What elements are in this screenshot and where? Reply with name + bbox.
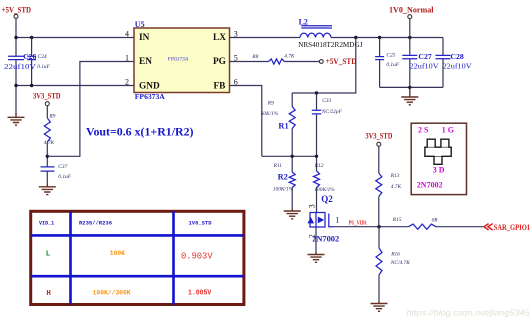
wire bottom bus [380, 86, 443, 88]
svg-text:EN: EN [139, 57, 152, 67]
junction [354, 36, 357, 39]
svg-text:Vout=0.6 x(1+R1/R2): Vout=0.6 x(1+R1/R2) [86, 125, 194, 138]
ground (below R16) [371, 302, 388, 312]
wire C33 branch [316, 93, 318, 156]
label R8 [251, 54, 295, 60]
svg-text:2 S: 2 S [418, 126, 429, 135]
capacitor C33 [312, 110, 321, 114]
label R1 refdes [261, 101, 279, 117]
wire 3V3 stem [46, 106, 48, 118]
svg-text:R16: R16 [390, 251, 400, 257]
pin number 2 [125, 78, 129, 87]
svg-text:0.1uF: 0.1uF [386, 62, 399, 68]
resistor R13 [376, 173, 382, 197]
label R2 [278, 173, 288, 182]
pin number 5 [234, 54, 238, 63]
ground (output caps) [401, 87, 418, 104]
pin number 6 [234, 78, 238, 87]
svg-text:SAR_GPIO1: SAR_GPIO1 [494, 223, 530, 232]
label R9 [44, 114, 56, 146]
wire R13 to gate node [378, 197, 380, 227]
svg-text:3V3_STD: 3V3_STD [33, 90, 61, 100]
svg-text:100K/1%: 100K/1% [273, 187, 294, 193]
capacitor C27 [402, 55, 417, 58]
wire R9 to node [46, 142, 48, 185]
wire R1 top stub [291, 93, 293, 156]
table cell 100K [110, 250, 125, 257]
wire EN route [47, 62, 134, 157]
pin number 1 (Q2 gate) [335, 216, 339, 225]
label FP6373A (below box) [135, 92, 165, 101]
ground (below Q2) [308, 253, 325, 263]
capacitor C28 [436, 55, 451, 58]
label C37 [58, 164, 71, 180]
pin number 4 [125, 30, 129, 39]
junction [30, 36, 33, 39]
junction [30, 84, 33, 87]
svg-text:NC/22pF: NC/22pF [321, 109, 343, 115]
wire 1V0 stem [409, 19, 411, 38]
package box 2N7002 [411, 123, 466, 194]
capacitor C28 branch wires [442, 38, 444, 88]
svg-text:H: H [46, 290, 50, 298]
wire +5V stem to ground [15, 19, 17, 115]
wire C24 branch [31, 38, 33, 86]
net label PU_VID1 [349, 221, 367, 227]
svg-text:R11: R11 [273, 163, 283, 169]
ground (below C37) [39, 185, 56, 195]
wire FB node rail [262, 155, 317, 157]
wire GND rail [16, 85, 134, 87]
wire Q2 source to ground [315, 227, 317, 253]
label C28 [443, 52, 473, 70]
svg-text:C27: C27 [418, 52, 432, 61]
svg-text:0.903V: 0.903V [181, 251, 213, 262]
watermark [407, 308, 530, 317]
label C25 [386, 52, 399, 67]
label U5 [135, 20, 145, 29]
node +5V_STD (PG pullup) [319, 56, 356, 66]
svg-text:1: 1 [125, 54, 129, 63]
junction gate node [377, 225, 380, 228]
resistor R12 [314, 171, 320, 188]
svg-text:PG: PG [213, 57, 226, 67]
table header 1V0_STD [189, 220, 213, 227]
pin name EN [139, 57, 152, 67]
svg-text:C28: C28 [450, 52, 464, 61]
pin name GND [139, 81, 160, 91]
svg-text:1: 1 [335, 216, 339, 225]
svg-text:3 D: 3 D [433, 165, 445, 174]
label C24 value [37, 54, 50, 70]
junction [291, 155, 294, 158]
svg-text:50K/1%: 50K/1% [261, 111, 279, 117]
svg-text:R9: R9 [267, 101, 274, 107]
svg-text:NRS4018T2R2MDGJ: NRS4018T2R2MDGJ [298, 41, 363, 49]
junction [315, 91, 318, 94]
resistor R9 [44, 118, 50, 142]
svg-text:0.1uF: 0.1uF [58, 174, 71, 180]
svg-text:U5: U5 [135, 20, 145, 29]
ground (below C26) [8, 113, 25, 125]
table cell 100K//300K [93, 289, 131, 296]
svg-text:L: L [46, 251, 51, 259]
pin name PG [213, 57, 226, 67]
junction [378, 36, 381, 39]
svg-text:R13: R13 [390, 173, 400, 179]
pin name LX [213, 33, 226, 43]
svg-text:IN: IN [139, 33, 150, 43]
table cell H [46, 290, 50, 298]
junction [14, 84, 17, 87]
junction [315, 155, 318, 158]
svg-text:Q2: Q2 [321, 194, 333, 204]
table VID truth [31, 211, 244, 304]
svg-text:1V0_Normal: 1V0_Normal [389, 4, 434, 14]
junction [14, 36, 17, 39]
table cell 1.005V [188, 289, 212, 297]
formula annotation [86, 125, 194, 138]
svg-text:22uf10V: 22uf10V [4, 62, 37, 71]
power 3V3_STD (pullup) [365, 130, 392, 146]
svg-text:+5V_STD: +5V_STD [2, 5, 32, 15]
wire gate net PU_VID1 [333, 226, 484, 228]
resistor R16 [376, 248, 382, 275]
svg-text:100K: 100K [110, 250, 125, 257]
wire R16 stubs [378, 227, 380, 302]
table cell L [46, 251, 51, 259]
svg-text:22uf10V: 22uf10V [443, 61, 473, 70]
junction [408, 86, 411, 89]
label 2N7002 (package) [417, 180, 443, 189]
svg-text:R235//R236: R235//R236 [79, 220, 113, 227]
label R12 [314, 163, 335, 193]
transistor Q2 NMOS [308, 213, 334, 228]
svg-text:C33: C33 [322, 98, 331, 104]
svg-text:R9: R9 [48, 114, 55, 120]
resistor R1 [289, 107, 295, 129]
wire Vout feedback tap [292, 38, 356, 94]
svg-text:R1: R1 [278, 121, 288, 130]
label R15 [392, 217, 438, 224]
pin number 2 (Q2 source) [308, 234, 317, 238]
capacitor C37 [41, 167, 55, 171]
label R2 refdes [273, 163, 294, 192]
svg-text:+5V_STD: +5V_STD [326, 56, 357, 66]
svg-text:2: 2 [125, 78, 129, 87]
svg-text:GND: GND [139, 81, 160, 91]
inductor L2 [300, 26, 332, 38]
junction [408, 36, 411, 39]
svg-text:VID_1: VID_1 [39, 220, 55, 227]
svg-text:100K/1%: 100K/1% [314, 187, 335, 193]
capacitor C24 [27, 56, 36, 59]
wire IN rail [16, 37, 134, 39]
wire 3V3 pullup stem [378, 146, 380, 173]
svg-text:R15: R15 [392, 217, 402, 223]
wire FB to divider [230, 86, 262, 157]
svg-text:1.005V: 1.005V [188, 289, 212, 297]
svg-text:R8: R8 [251, 54, 258, 60]
svg-text:3V3_STD: 3V3_STD [365, 130, 392, 140]
svg-text:FB: FB [214, 81, 226, 91]
table header VID_1 [39, 220, 55, 227]
svg-text:4.7K: 4.7K [284, 54, 295, 60]
label R1 [278, 121, 288, 130]
label 3 D [433, 165, 445, 174]
svg-text:NC/4.7K: NC/4.7K [390, 260, 410, 266]
op-amp U5 regulator FP6373A body [134, 28, 230, 93]
svg-text:2N7002: 2N7002 [417, 180, 443, 189]
pin name FB [214, 81, 226, 91]
power 3V3_STD (left) [33, 90, 61, 105]
capacitor C25 [375, 57, 384, 60]
svg-text:R12: R12 [314, 163, 324, 169]
pin number 3 [234, 30, 238, 39]
capacitor C27 branch wires [409, 38, 411, 88]
label FP6373A (inside) [167, 57, 189, 63]
label pads 2 S 1 G [418, 126, 454, 135]
junction EN node [46, 155, 49, 158]
svg-text:3: 3 [308, 204, 317, 208]
svg-text:C26: C26 [23, 52, 36, 61]
svg-text:0.1uF: 0.1uF [37, 64, 50, 70]
svg-text:4.7K: 4.7K [44, 140, 55, 146]
svg-text:C24: C24 [38, 54, 47, 60]
wire top bus 1V0 [331, 37, 443, 39]
svg-text:FP6373A: FP6373A [167, 57, 189, 63]
label C27 [410, 52, 440, 70]
label R13 [390, 173, 402, 190]
power 1V0_Normal [389, 4, 434, 18]
svg-text:FP6373A: FP6373A [135, 92, 165, 101]
label L2 [299, 17, 308, 26]
wire R2 stubs [291, 156, 293, 209]
resistor R15 [409, 224, 437, 229]
resistor R2 [289, 172, 295, 188]
wire R12 stubs [316, 156, 318, 212]
label Q2 [321, 194, 333, 204]
svg-text:22uf10V: 22uf10V [410, 61, 440, 70]
table cell 0.903V [181, 251, 213, 262]
svg-text:0R: 0R [432, 217, 439, 223]
table header R235//R236 [79, 220, 113, 227]
label NRS4018T2R2MDGJ [298, 41, 363, 49]
svg-text:C37: C37 [58, 164, 67, 170]
resistor R8 [269, 59, 285, 64]
svg-text:PU_VID1: PU_VID1 [349, 221, 367, 227]
package SOT-23 outline [425, 139, 451, 164]
ground (below R2) [284, 209, 301, 219]
capacitor C25 branch wires [379, 38, 381, 88]
pin number 3 (Q2 drain) [308, 204, 317, 208]
capacitor C26 [8, 56, 24, 59]
wire LX to inductor [230, 37, 301, 39]
label C33 [321, 98, 343, 115]
power +5V_STD (top-left) [2, 5, 32, 19]
svg-text:4: 4 [125, 30, 129, 39]
pin name IN [139, 33, 150, 43]
net connector SAR_GPIO1 [484, 223, 530, 232]
svg-text:1V0_STD: 1V0_STD [189, 220, 213, 227]
svg-text:1 G: 1 G [442, 126, 454, 135]
svg-text:R2: R2 [278, 173, 288, 182]
svg-text:4.7K: 4.7K [391, 184, 402, 190]
svg-text:C25: C25 [386, 52, 395, 58]
pin number 1 [125, 54, 129, 63]
svg-text:L2: L2 [299, 17, 308, 26]
label 2N7002 (Q2) [312, 234, 339, 243]
svg-text:100K//300K: 100K//300K [93, 289, 131, 296]
svg-text:https.//blog.csdn.net/jiang534: https.//blog.csdn.net/jiang5345 [407, 308, 530, 317]
svg-text:LX: LX [213, 33, 226, 43]
label R16 [390, 251, 410, 266]
wire PG to +5V [230, 61, 320, 63]
label C26 value [4, 52, 37, 71]
